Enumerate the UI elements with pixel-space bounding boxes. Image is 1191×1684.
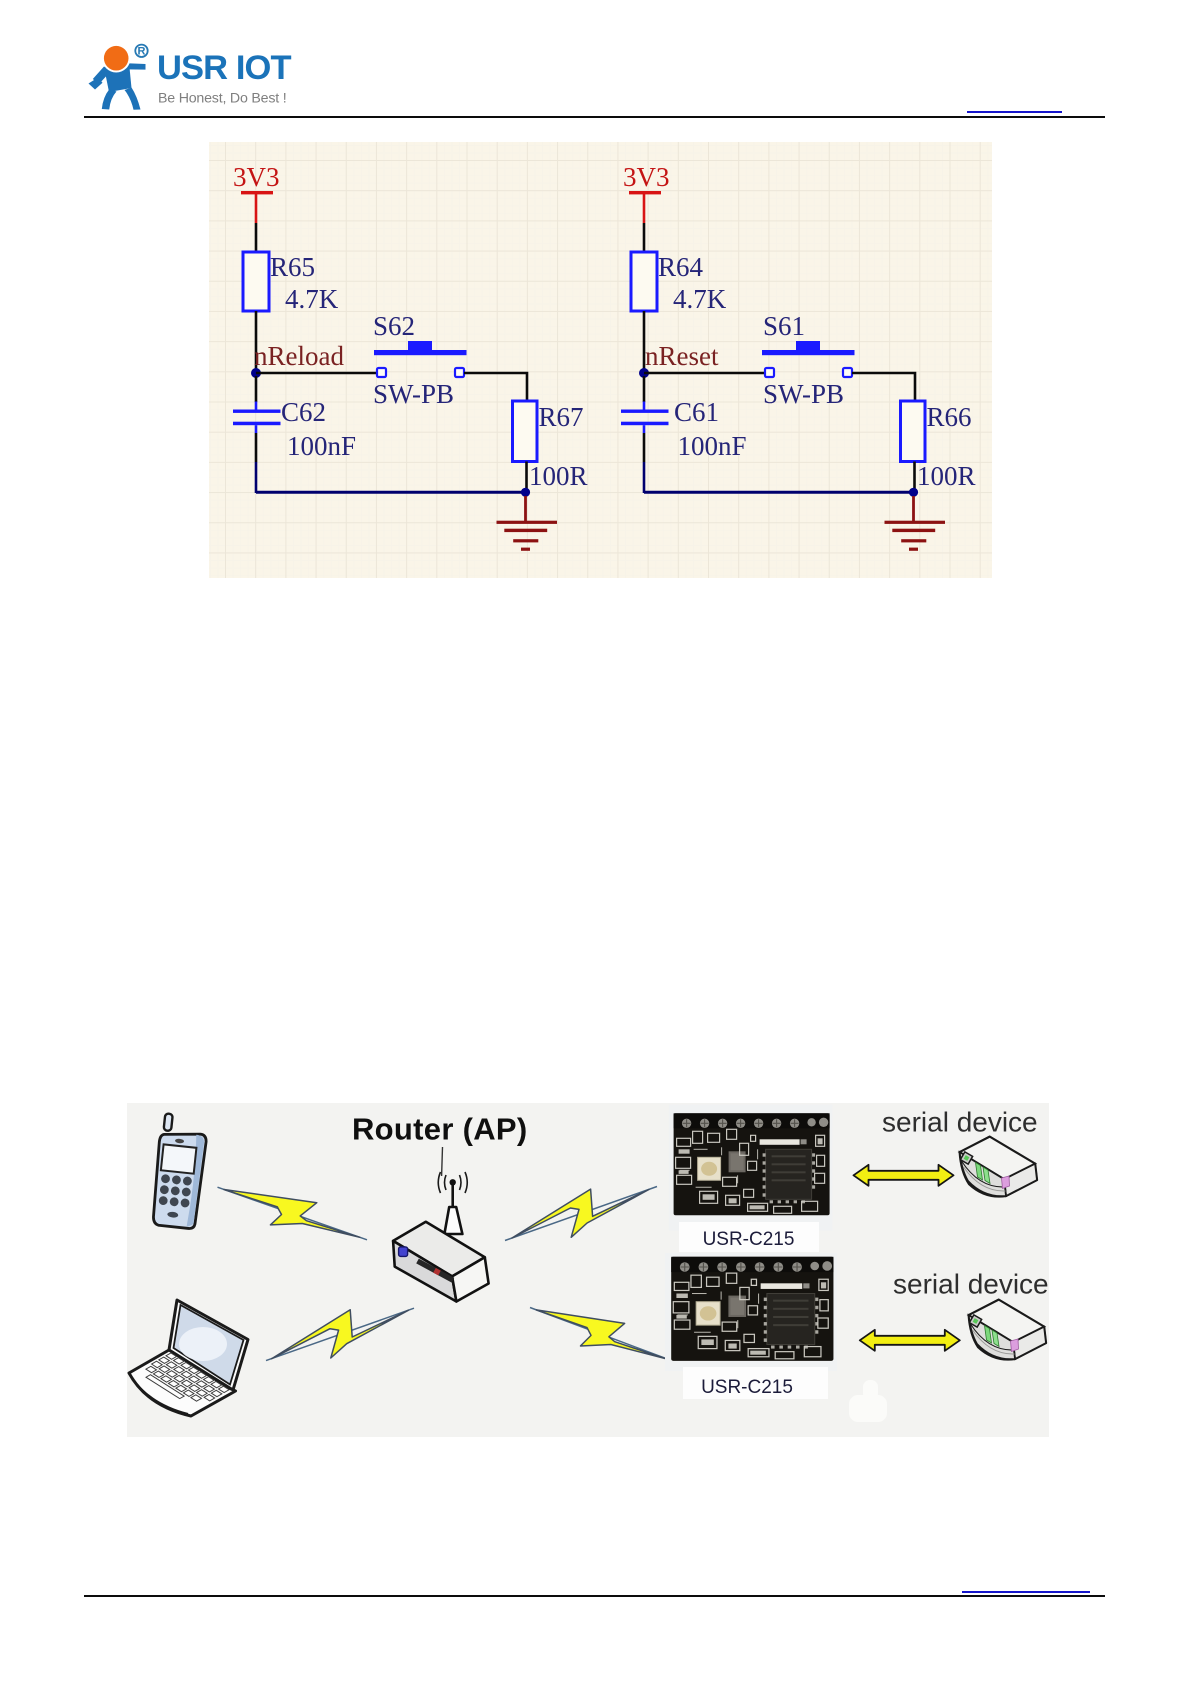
resistor R64 (631, 252, 657, 311)
footer rule (84, 1595, 1105, 1597)
logo head (102, 44, 131, 73)
module2 photo (665, 1253, 837, 1399)
svg-text:3V3: 3V3 (233, 162, 280, 192)
router box (393, 1222, 489, 1302)
wire 3V3 to R65 (255, 223, 258, 252)
wifi waves (438, 1172, 467, 1193)
svg-text:S62: S62 (373, 311, 415, 341)
registered mark (135, 45, 147, 57)
wire R67 to ground node (525, 462, 528, 492)
svg-text:Router (AP): Router (AP) (352, 1112, 528, 1147)
svg-text:SW-PB: SW-PB (373, 379, 454, 409)
ground symbol (left) (497, 521, 558, 551)
resistor R67 (513, 401, 538, 462)
svg-text:serial device: serial device (893, 1269, 1049, 1300)
router vents (418, 1261, 454, 1280)
wire bottom rail (left) (256, 491, 526, 494)
svg-text:R: R (138, 46, 146, 58)
header rule (84, 116, 1105, 118)
switch S62 pin 1 (377, 368, 386, 377)
router button (399, 1247, 408, 1257)
antenna (450, 1179, 456, 1185)
svg-text:C62: C62 (281, 397, 326, 427)
junction node nReload (251, 368, 261, 378)
capacitor C61 (621, 410, 669, 426)
wire switch pin2 to R67 (464, 373, 527, 401)
wire node to switch pin 1 (256, 372, 377, 375)
svg-text:USR IOT: USR IOT (157, 49, 291, 87)
junction ground node (left) (521, 488, 530, 497)
svg-text:3V3: 3V3 (623, 162, 670, 192)
svg-text:100nF: 100nF (287, 431, 356, 461)
svg-text:Be Honest, Do Best !: Be Honest, Do Best ! (158, 91, 286, 107)
arrow 1 (854, 1165, 954, 1186)
wire node to switch S61 pin 1 (644, 372, 765, 375)
junction ground node (right) (909, 488, 918, 497)
svg-text:nReset: nReset (645, 341, 719, 371)
bolt phone-router (218, 1187, 368, 1240)
svg-text:100R: 100R (529, 461, 588, 491)
header logo (84, 38, 684, 113)
wire capacitor C61 top (643, 376, 646, 410)
wire bottom rail (right) (644, 491, 914, 494)
switch S62 button bar (374, 341, 467, 355)
mobile phone (151, 1113, 209, 1229)
header blue link line (967, 111, 1062, 113)
wire C61 bottom to rail (643, 425, 646, 493)
resistor R65 (243, 252, 269, 311)
svg-text:USR-C215: USR-C215 (701, 1377, 793, 1398)
arrow 2 (860, 1330, 960, 1351)
wire to ground symbol (right) (912, 496, 915, 521)
junction node nReset (639, 368, 649, 378)
resistor R66 (901, 401, 926, 462)
svg-text:R66: R66 (927, 402, 972, 432)
bolt router-module1 (505, 1187, 657, 1241)
switch S62 pin 2 (455, 368, 464, 377)
svg-text:C61: C61 (674, 397, 719, 427)
wire R66 to ground node (913, 462, 916, 492)
bolt router-module2 (530, 1308, 674, 1362)
wire R65 to node nReload (255, 311, 258, 373)
pointer line (441, 1147, 444, 1176)
wire capacitor C62 top (255, 376, 258, 410)
ground symbol (right) (885, 521, 946, 551)
logo body (89, 63, 146, 110)
svg-text:serial device: serial device (882, 1107, 1038, 1138)
switch S61 button bar (762, 341, 855, 355)
svg-text:4.7K: 4.7K (673, 284, 727, 314)
white patches (849, 1395, 887, 1422)
serial device 2 (969, 1300, 1046, 1360)
power bar symbol 3V3 (left) (241, 191, 273, 223)
switch S61 pin 2 (843, 368, 852, 377)
serial device 1 (960, 1137, 1037, 1197)
module1 photo (669, 1105, 833, 1252)
svg-text:R64: R64 (658, 252, 704, 282)
capacitor C62 (233, 410, 281, 426)
laptop (129, 1300, 248, 1416)
svg-text:R67: R67 (539, 402, 584, 432)
bolt laptop-router (266, 1308, 414, 1360)
svg-text:R65: R65 (270, 252, 315, 282)
wire to ground symbol (left) (524, 496, 527, 521)
svg-text:4.7K: 4.7K (285, 284, 339, 314)
svg-text:S61: S61 (763, 311, 805, 341)
wire C62 bottom to rail (255, 425, 258, 493)
wire 3V3 to R64 (643, 223, 646, 252)
svg-text:100R: 100R (917, 461, 976, 491)
wire switch S61 pin2 to R66 (852, 373, 915, 401)
footer blue link line (962, 1591, 1090, 1593)
wire R64 to node nReset (643, 311, 646, 373)
power bar symbol 3V3 (right) (629, 191, 661, 223)
switch S61 pin 1 (765, 368, 774, 377)
svg-text:SW-PB: SW-PB (763, 379, 844, 409)
schematic panel (209, 142, 992, 578)
svg-text:nReload: nReload (254, 341, 344, 371)
svg-text:100nF: 100nF (678, 431, 747, 461)
svg-text:USR-C215: USR-C215 (703, 1229, 795, 1250)
network diagram panel (127, 1103, 1049, 1437)
